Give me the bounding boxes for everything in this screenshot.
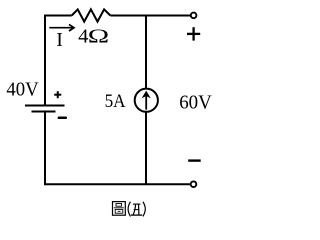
wire left upper (battery + to top-left corner) <box>44 15 46 106</box>
label 4Ω (value of R1) <box>78 25 109 47</box>
svg-text:40V: 40V <box>6 79 39 101</box>
resistor R1 4Ω zigzag <box>72 9 111 21</box>
battery V1 short plate (-) <box>32 111 56 113</box>
caption 圖(五) figure five <box>113 202 146 217</box>
output polarity label + <box>187 27 200 40</box>
current direction arrow I <box>49 24 74 31</box>
wire middle branch upper <box>145 16 147 90</box>
output polarity label − <box>188 159 201 161</box>
wire top from resistor to top-right terminal <box>110 15 190 17</box>
label 5A (value of current source) <box>105 91 126 112</box>
wire left lower from battery to bottom <box>44 112 46 186</box>
svg-text:I: I <box>56 29 63 51</box>
battery V1 long plate (+) <box>25 105 65 107</box>
glyph 圖 <box>113 202 126 216</box>
wire middle branch lower <box>145 112 147 184</box>
glyph ( <box>128 202 130 217</box>
svg-text:Ω: Ω <box>88 25 109 47</box>
terminal node bottom-right (open circle) <box>191 181 197 187</box>
wire bottom <box>45 183 190 185</box>
battery polarity label − <box>59 116 66 119</box>
glyph ) <box>143 202 145 217</box>
glyph 五 <box>131 204 142 215</box>
label 60V (output voltage) <box>179 91 212 113</box>
wire top-left from corner to resistor <box>44 15 72 17</box>
label 40V <box>6 79 39 101</box>
current source arrow (upward) <box>142 91 151 110</box>
current source U1 5A circle <box>135 89 158 112</box>
svg-text:5A: 5A <box>105 91 126 112</box>
terminal node top-right (open circle) <box>191 13 197 19</box>
label I <box>56 29 63 51</box>
svg-text:60V: 60V <box>179 91 212 113</box>
battery polarity label + <box>54 91 61 98</box>
